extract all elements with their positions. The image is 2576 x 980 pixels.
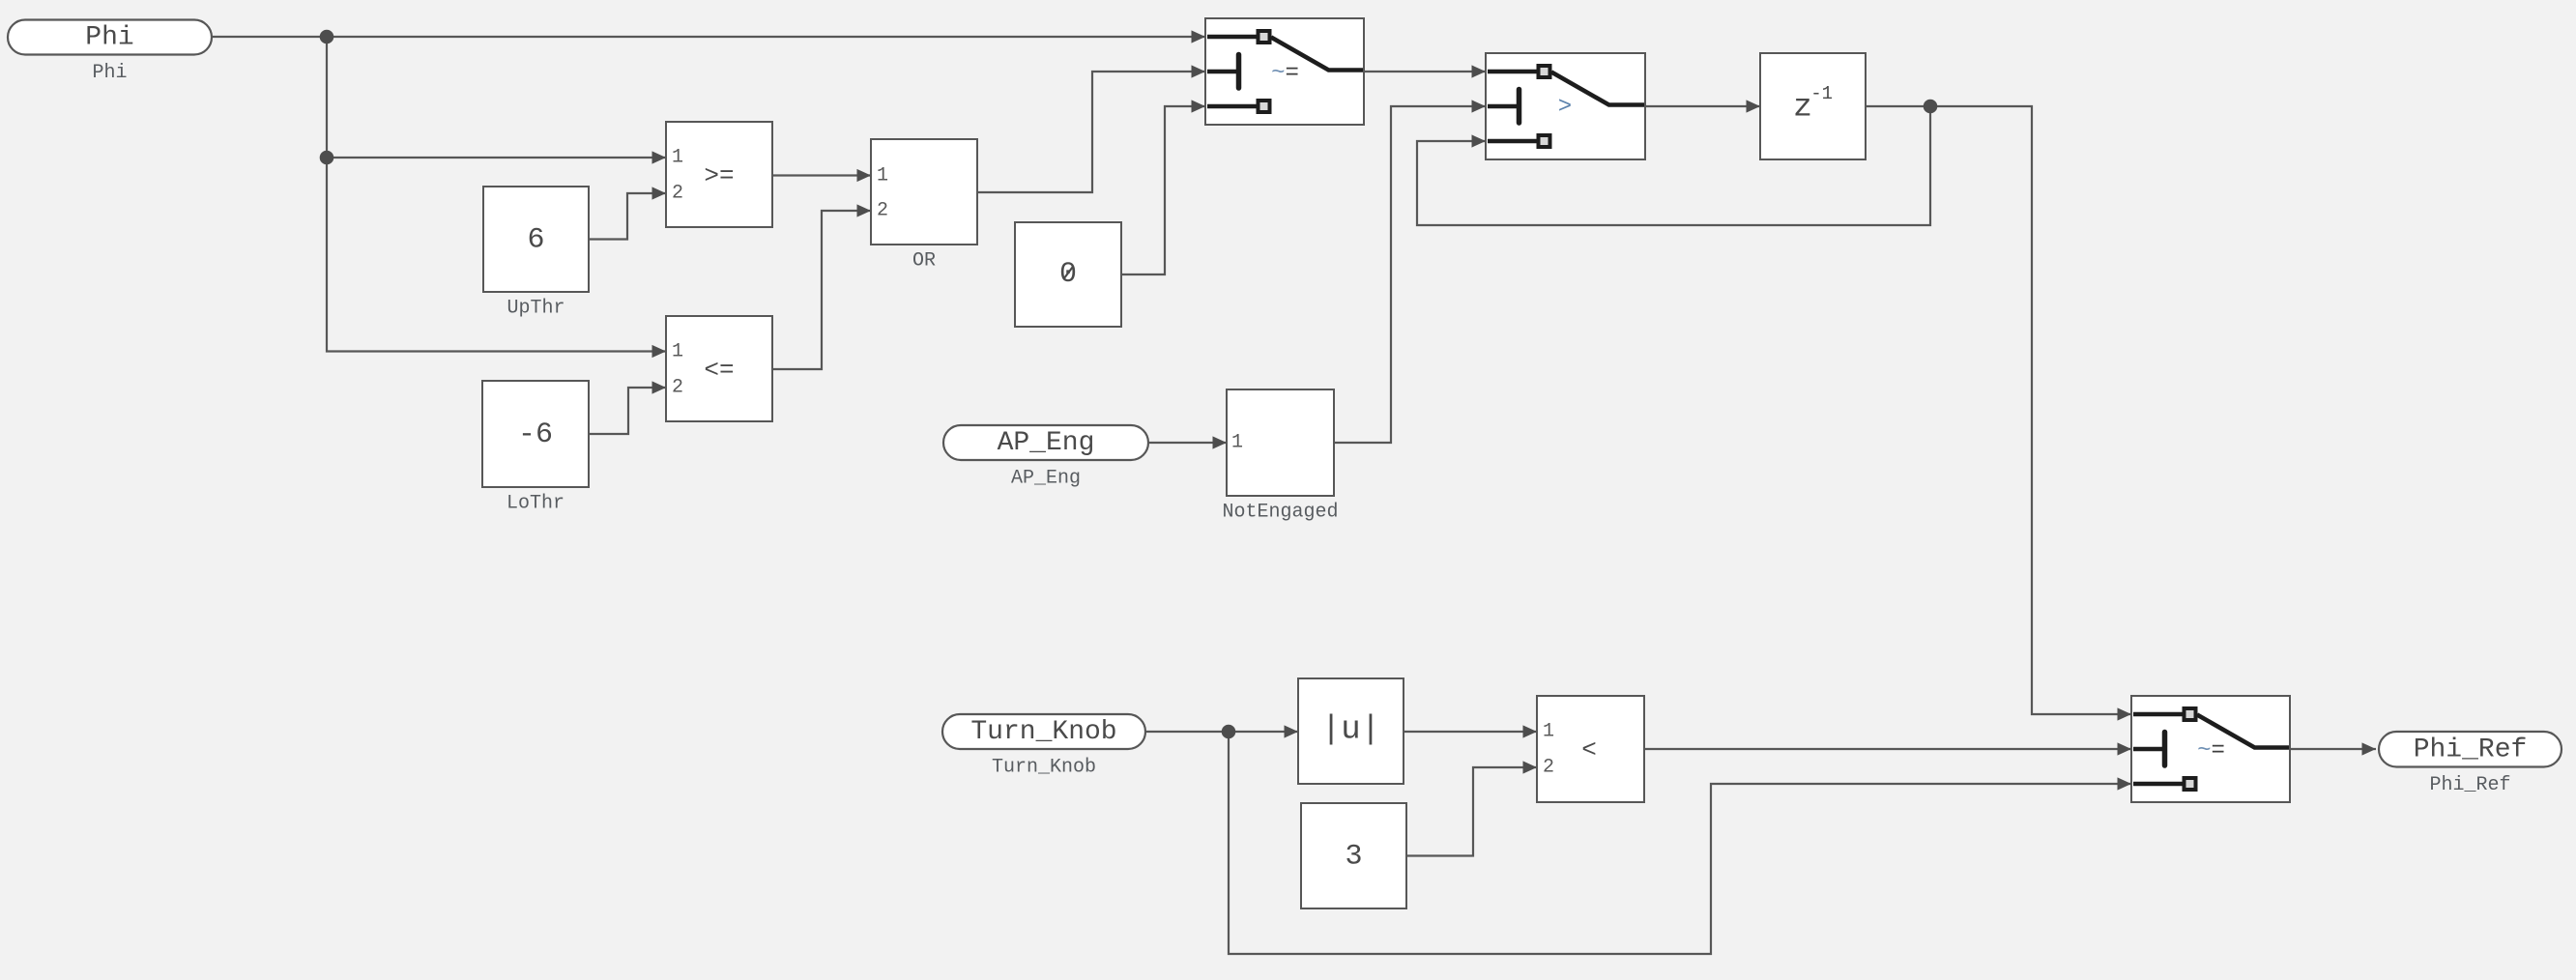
relational operator LE <= <box>666 316 772 421</box>
svg-text:-1: -1 <box>1810 83 1833 104</box>
relational operator LT < <box>1537 696 1644 802</box>
svg-text:2: 2 <box>1543 757 1554 779</box>
svg-text:Turn_Knob: Turn_Knob <box>992 757 1096 779</box>
wire Zero to Switch1 input 3 <box>1121 100 1205 274</box>
svg-text:z: z <box>1793 90 1812 126</box>
logical operator NotEngaged <box>1222 389 1338 524</box>
logical operator OR <box>871 139 977 273</box>
svg-text:1: 1 <box>672 147 683 169</box>
svg-text:~=: ~= <box>1271 60 1299 86</box>
svg-text:~=: ~= <box>2197 737 2225 764</box>
svg-text:3: 3 <box>1345 841 1362 874</box>
constant LoThr value -6 <box>482 381 589 515</box>
wire Switch3 to Phi_Ref <box>2290 742 2376 755</box>
junction node Unit Delay output <box>1924 100 1938 114</box>
wire Abs to LT input 1 <box>1404 725 1537 737</box>
switch Switch1 criteria ~= <box>1205 18 1364 125</box>
svg-text:1: 1 <box>877 165 888 187</box>
wire GE to OR input 1 <box>772 169 871 182</box>
constant Three value 3 <box>1301 803 1406 908</box>
wire Phi branch to GE input 1 <box>327 151 666 163</box>
svg-text:Phi: Phi <box>92 62 127 84</box>
wire Three to LT input 2 <box>1406 761 1537 855</box>
svg-text:1: 1 <box>1543 721 1554 743</box>
relational operator GE >= <box>666 122 772 227</box>
wire LT to Switch3 input 2 <box>1644 742 2131 755</box>
svg-text:2: 2 <box>672 183 683 205</box>
svg-text:AP_Eng: AP_Eng <box>998 428 1095 458</box>
wire OR to Switch1 input 2 <box>977 65 1205 192</box>
svg-text:6: 6 <box>527 224 544 257</box>
svg-text:>=: >= <box>704 161 734 190</box>
wire LE to OR input 2 <box>772 204 871 369</box>
svg-text:NotEngaged: NotEngaged <box>1222 502 1338 524</box>
svg-text:<: < <box>1581 735 1597 764</box>
svg-text:|u|: |u| <box>1321 712 1380 749</box>
wire Switch1 to Switch2 input 1 <box>1364 65 1486 77</box>
svg-text:<=: <= <box>704 356 734 385</box>
wire Unit Delay to Switch3 input 1 <box>1866 106 2131 721</box>
svg-text:Phi_Ref: Phi_Ref <box>2429 774 2510 796</box>
wire UpThr to GE input 2 <box>589 187 666 239</box>
inport Turn_Knob <box>942 714 1145 779</box>
wire NotEngaged to Switch2 input 2 <box>1334 100 1486 443</box>
svg-text:-6: -6 <box>518 418 553 451</box>
wire LoThr to LE input 2 <box>589 381 666 434</box>
svg-text:2: 2 <box>672 377 683 399</box>
junction node Turn_Knob <box>1222 725 1236 739</box>
svg-text:2: 2 <box>877 200 888 222</box>
svg-text:>: > <box>1558 95 1572 121</box>
wire Turn_Knob feedback to Switch3 input 3 <box>1229 732 2131 954</box>
svg-text:UpThr: UpThr <box>507 298 564 320</box>
constant UpThr value 6 <box>483 187 589 320</box>
switch Switch3 criteria ~= <box>2131 696 2290 802</box>
unit delay z^-1 <box>1760 53 1866 159</box>
svg-text:Phi: Phi <box>85 23 133 53</box>
switch Switch2 criteria > <box>1486 53 1645 159</box>
wire Turn_Knob to Abs <box>1145 725 1298 737</box>
svg-text:AP_Eng: AP_Eng <box>1011 468 1081 490</box>
wire Switch2 to Unit Delay <box>1645 100 1760 112</box>
junction node Phi lower <box>320 151 334 165</box>
outport Phi_Ref <box>2379 732 2562 796</box>
inport AP_Eng <box>943 425 1148 490</box>
inport Phi <box>8 20 212 85</box>
svg-text:Turn_Knob: Turn_Knob <box>970 717 1116 747</box>
junction node Phi top <box>320 30 334 44</box>
constant Zero value 0 <box>1015 222 1121 327</box>
wire Phi to Switch1 input 1 <box>212 30 1205 43</box>
wire Unit Delay feedback to Switch2 input 3 <box>1417 106 1930 225</box>
svg-text:Phi_Ref: Phi_Ref <box>2414 735 2528 764</box>
svg-text:OR: OR <box>912 250 936 273</box>
svg-text:1: 1 <box>1231 432 1243 454</box>
wire Phi branch vertical <box>327 37 666 358</box>
svg-text:LoThr: LoThr <box>507 493 564 515</box>
wire AP_Eng to NotEngaged <box>1148 436 1227 448</box>
abs block |u| <box>1298 678 1404 784</box>
svg-text:1: 1 <box>672 341 683 363</box>
